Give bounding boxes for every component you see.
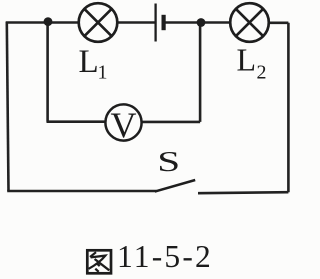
wire voltmeter branch right vertical — [199, 23, 202, 122]
lamp L1 — [79, 3, 118, 42]
svg-text:1: 1 — [98, 62, 108, 84]
wire right vertical — [287, 23, 290, 193]
wire bottom left segment — [7, 190, 156, 193]
wire top left segment — [6, 21, 79, 24]
svg-text:V: V — [111, 105, 137, 145]
svg-text:L: L — [237, 42, 257, 78]
lamp L2 — [230, 3, 269, 42]
label L1 — [79, 44, 108, 84]
wire between battery and lamp L2 — [165, 21, 231, 24]
voltmeter V — [105, 104, 141, 144]
node A (junction dot left) — [44, 17, 53, 26]
label L2 — [237, 42, 267, 84]
wire voltmeter branch left horizontal — [47, 120, 106, 123]
caption character 图 (drawn) — [87, 250, 111, 273]
svg-text:2: 2 — [257, 62, 267, 84]
wire voltmeter branch left vertical — [46, 22, 49, 122]
svg-text:L: L — [79, 44, 99, 80]
wire between lamp L1 and battery — [117, 21, 154, 24]
switch S — [155, 180, 195, 192]
battery B1 — [156, 4, 164, 42]
wire voltmeter branch right horizontal — [141, 121, 200, 124]
wire top right segment — [269, 21, 289, 24]
svg-text:S: S — [157, 145, 180, 178]
wire bottom right segment — [198, 192, 288, 193]
svg-text:11-5-2: 11-5-2 — [117, 239, 213, 274]
node B (junction dot right) — [197, 18, 206, 27]
wire left vertical — [7, 22, 9, 192]
